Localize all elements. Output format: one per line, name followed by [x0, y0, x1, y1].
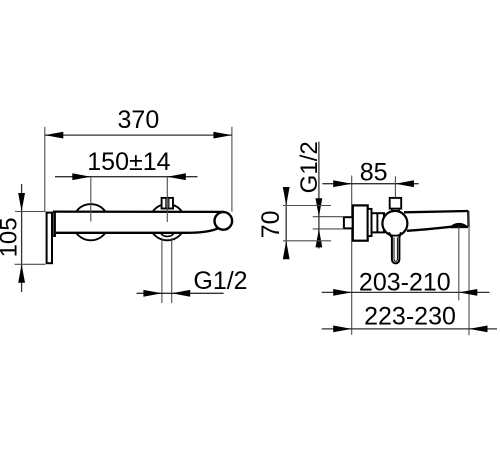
dim line 223-230	[322, 328, 497, 330]
arrow 203 left	[333, 289, 352, 296]
spout tip face	[467, 211, 470, 227]
ext line spout tip	[468, 211, 470, 335]
lever blade side	[392, 237, 400, 264]
escutcheon circle left	[73, 204, 109, 240]
wall plate	[353, 205, 368, 240]
handle neck right	[399, 232, 401, 238]
svg-text:150±14: 150±14	[87, 148, 170, 176]
arrow 85 right	[395, 180, 414, 187]
cartridge ball	[382, 211, 407, 236]
ext line 70 top	[283, 205, 331, 207]
svg-text:G1/2: G1/2	[296, 141, 323, 193]
body cylinder	[372, 213, 385, 232]
bar body fill	[53, 212, 219, 233]
arrow 105 top	[18, 193, 25, 212]
svg-text:85: 85	[360, 158, 388, 186]
stub ext line bottom	[313, 228, 344, 230]
dim line 150±14	[55, 176, 198, 178]
arrow 370 left	[45, 132, 64, 139]
ext line 105 bottom	[15, 263, 46, 265]
ext line aerator	[458, 227, 460, 301]
spout bottom edge	[407, 227, 452, 231]
pipe hub dome below bar	[161, 233, 174, 237]
arrow 223 left	[333, 326, 352, 333]
centerline left	[90, 177, 92, 221]
svg-text:70: 70	[257, 210, 285, 238]
dim line 105 vertical	[21, 184, 23, 292]
arrow 70 top	[283, 187, 290, 206]
body joint line	[376, 213, 378, 232]
arrow 150 left	[72, 173, 91, 180]
bar end cap	[53, 212, 56, 236]
arrow 150 right	[167, 173, 186, 180]
arrow 105 bottom	[18, 264, 25, 283]
aerator bump	[450, 223, 468, 227]
ext line 105 top	[15, 211, 46, 213]
dim line 370	[45, 134, 232, 136]
plate step	[368, 209, 372, 236]
ext line 370 left	[44, 127, 46, 211]
bar bottom edge	[56, 228, 218, 232]
lever blade inner line	[394, 238, 397, 262]
arrow 370 right	[213, 132, 232, 139]
dim line 203-210	[322, 291, 490, 293]
stub ext line top	[313, 216, 344, 218]
G1/2 dim line side	[318, 142, 320, 249]
bar top edge	[53, 210, 224, 213]
dim line 85	[322, 183, 418, 185]
arrow G1/2 left	[143, 290, 162, 297]
svg-text:223-230: 223-230	[364, 303, 456, 331]
spout tip circle	[215, 212, 233, 230]
spout top edge	[404, 211, 468, 212]
lever handle front	[47, 213, 52, 264]
step below bar	[53, 235, 56, 237]
svg-text:203-210: 203-210	[359, 269, 451, 297]
arrow 85 left	[333, 180, 352, 187]
svg-text:105: 105	[0, 217, 23, 257]
nut stem	[391, 209, 393, 213]
svg-text:370: 370	[118, 106, 160, 134]
arrow G1/2 side top	[316, 198, 323, 217]
arrow 223 right	[469, 326, 488, 333]
arrow 203 right	[459, 289, 478, 296]
centerline right	[166, 177, 168, 222]
arrow 70 bottom	[283, 241, 290, 259]
svg-text:G1/2: G1/2	[193, 267, 247, 295]
G1/2 pipe lines	[161, 238, 163, 303]
handle neck left	[389, 232, 392, 238]
escutcheon circle right	[149, 204, 185, 240]
ext line 370 right	[231, 127, 233, 212]
pipe stub	[344, 217, 353, 228]
ext line 85 right	[394, 176, 396, 197]
arrow G1/2 side bottom	[316, 229, 323, 248]
dim line G1/2 front	[137, 292, 224, 294]
dim line 70 vertical	[285, 188, 287, 254]
nut side	[390, 198, 402, 209]
ext line 70 bottom	[283, 240, 331, 242]
wall extension line	[351, 176, 353, 335]
nut facet lines	[165, 199, 167, 208]
mounting nut	[162, 198, 173, 209]
arrow G1/2 right	[172, 290, 191, 297]
